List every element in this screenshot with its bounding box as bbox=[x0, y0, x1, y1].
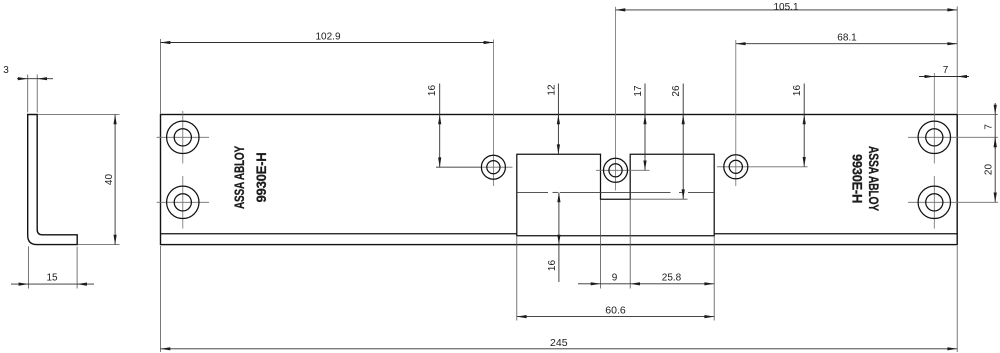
svg-text:60.6: 60.6 bbox=[605, 305, 626, 317]
dimension 16 left vertical bbox=[427, 84, 481, 168]
small hole left crosshair bbox=[436, 40, 513, 187]
plate outline front view bbox=[161, 115, 958, 245]
dimension 16 bottom center bbox=[547, 192, 561, 282]
small hole middle bbox=[604, 158, 628, 182]
hole top-left crosshair bbox=[157, 111, 209, 164]
small hole right bbox=[724, 155, 748, 179]
dimension 17 bbox=[633, 84, 647, 171]
hole top-right bbox=[918, 121, 950, 153]
dimension 3 extension lines bbox=[28, 75, 38, 113]
svg-text:7: 7 bbox=[984, 124, 995, 130]
svg-text:9: 9 bbox=[612, 273, 618, 284]
svg-text:20: 20 bbox=[984, 164, 995, 176]
hole bottom-right crosshair bbox=[908, 176, 998, 229]
svg-text:68.1: 68.1 bbox=[837, 33, 857, 44]
svg-text:7: 7 bbox=[943, 65, 949, 76]
dimension 105.1 bbox=[616, 2, 958, 13]
dimension 68.1 bbox=[736, 33, 957, 46]
dimension 7 right side bbox=[984, 103, 997, 149]
svg-text:245: 245 bbox=[550, 337, 568, 349]
dimension 15 bbox=[11, 273, 94, 286]
dimension 40 extension lines bbox=[38, 115, 120, 245]
hole top-left bbox=[167, 121, 199, 153]
bend line bbox=[161, 233, 957, 235]
svg-text:ASSA ABLOY: ASSA ABLOY bbox=[231, 145, 247, 209]
dimension 16 right vertical bbox=[792, 84, 806, 167]
svg-text:26: 26 bbox=[671, 85, 682, 97]
cutout with center tab bbox=[517, 154, 714, 236]
dimension 102.9 bbox=[161, 32, 494, 45]
top right corner extension right bbox=[958, 114, 998, 116]
small hole left bbox=[481, 155, 505, 179]
svg-text:17: 17 bbox=[633, 85, 644, 97]
dimension 26 bbox=[630, 84, 687, 200]
side view L-profile outline bbox=[28, 115, 77, 245]
svg-text:16: 16 bbox=[427, 85, 438, 97]
dimension 9 and 25.8 bbox=[578, 273, 714, 286]
right edge extension up bbox=[956, 7, 958, 114]
svg-text:16: 16 bbox=[792, 85, 803, 97]
svg-text:15: 15 bbox=[46, 273, 58, 284]
dimension 60.6 bbox=[517, 305, 714, 319]
dimension 3 bbox=[3, 65, 53, 80]
dimension 245 bbox=[161, 337, 958, 350]
left edge extension down bbox=[160, 246, 162, 352]
hole bottom-left crosshair bbox=[157, 176, 209, 229]
svg-text:3: 3 bbox=[3, 65, 9, 76]
svg-text:12: 12 bbox=[547, 84, 558, 96]
ASSA ABLOY logo right bbox=[866, 146, 882, 212]
svg-text:25.8: 25.8 bbox=[662, 273, 682, 284]
hole bottom-right bbox=[918, 186, 950, 218]
svg-text:40: 40 bbox=[104, 174, 115, 186]
svg-text:102.9: 102.9 bbox=[315, 32, 340, 43]
label 9930E-H right bbox=[850, 154, 866, 203]
svg-text:16: 16 bbox=[547, 260, 558, 272]
left edge extension up bbox=[160, 39, 162, 114]
svg-text:105.1: 105.1 bbox=[773, 2, 798, 13]
svg-text:9930E-H: 9930E-H bbox=[253, 152, 269, 202]
svg-text:ASSA ABLOY: ASSA ABLOY bbox=[866, 146, 882, 212]
right edge extension down bbox=[956, 246, 958, 352]
extension lines below cutout bbox=[517, 200, 714, 321]
dimension 40 bbox=[104, 115, 117, 245]
dimension 15 extension lines bbox=[28, 247, 77, 289]
dimension 12 bbox=[547, 84, 561, 155]
ASSA ABLOY logo left bbox=[231, 145, 247, 209]
dimension 7 top bbox=[919, 65, 969, 78]
hole bottom-left bbox=[167, 186, 199, 218]
small hole middle crosshair bbox=[596, 7, 650, 191]
svg-text:9930E-H: 9930E-H bbox=[850, 154, 866, 203]
dimension 20 right side bbox=[984, 137, 997, 202]
label 9930E-H left bbox=[253, 152, 269, 202]
small hole right crosshair bbox=[717, 40, 808, 186]
hole top-right crosshair bbox=[908, 73, 998, 164]
centerline (dash-dot) bbox=[517, 191, 714, 193]
